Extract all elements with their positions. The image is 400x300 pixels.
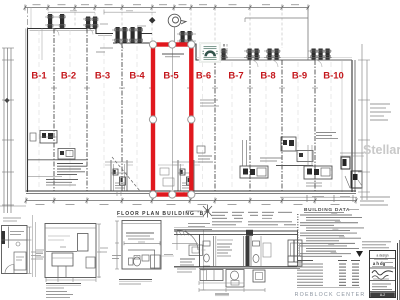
B-8 B-9 rear restroom boxes <box>281 137 296 151</box>
D3 interior walls <box>128 249 155 251</box>
entry door swing arcs <box>52 29 322 68</box>
detail callout spiral symbol <box>168 14 186 43</box>
small text above storefronts <box>137 25 146 27</box>
D5 top soffit band <box>174 227 298 229</box>
D5 walls <box>199 234 201 267</box>
svg-text:FLOOR PLAN BUILDING 'B': FLOOR PLAN BUILDING 'B' <box>117 211 207 217</box>
B-2 rear schedule text block <box>57 163 83 165</box>
sheet border edge <box>397 243 399 300</box>
revision rows above title block <box>362 241 391 243</box>
unit divider walls <box>39 29 331 192</box>
svg-text:ROEBLOCK CENTER: ROEBLOCK CENTER <box>295 292 366 298</box>
D3 dimension line <box>124 242 160 244</box>
lavatory sink <box>46 251 77 253</box>
building data note rows <box>300 214 352 216</box>
left vertical dimension lines <box>0 48 26 213</box>
secondary dimension line <box>48 11 95 13</box>
title block border <box>356 240 400 300</box>
B-6 rear marks <box>197 146 205 153</box>
D5 left stall toilet <box>203 241 210 246</box>
svg-text:B-2: B-2 <box>61 71 76 82</box>
rear right corner stair detail <box>341 157 350 169</box>
B-10 rear restroom block <box>307 145 309 166</box>
detail D1 dimension line <box>29 227 31 274</box>
D5 right stall toilet <box>253 241 260 246</box>
diagonal leader line in B-4 <box>112 157 140 191</box>
building B outline walls <box>26 29 356 194</box>
unit center mullion lines <box>38 30 40 190</box>
svg-text:B-8: B-8 <box>260 71 275 82</box>
svg-text:a h dg: a h dg <box>373 261 386 266</box>
storefront column clusters <box>45 14 332 60</box>
D5 center partition <box>246 236 250 266</box>
caption FLOOR PLAN BUILDING B <box>117 211 207 217</box>
D5 bottom dimensions <box>199 282 244 284</box>
miscellaneous plan annotation text <box>96 44 227 106</box>
right vertical dimension lines <box>358 44 391 200</box>
red selection rectangle around unit B-5 <box>149 41 195 198</box>
D5 interior note text <box>217 243 232 245</box>
title block address rows <box>372 283 391 285</box>
detail D3 enlarged toilet room plan <box>112 221 174 285</box>
detail D1 caption <box>36 249 44 251</box>
svg-text:BUILDING DATA: BUILDING DATA <box>304 207 350 213</box>
detail D2 lavatory interior elevation <box>31 224 108 298</box>
D5 below-floor cabinets <box>200 270 223 281</box>
benchmark diamond <box>149 17 156 24</box>
building data heading <box>297 207 364 288</box>
D4 text labels <box>180 258 195 260</box>
right side notes text <box>370 103 390 105</box>
left wall extension to dim line <box>27 8 29 29</box>
svg-text:B-9: B-9 <box>292 71 307 82</box>
title block signature scribble <box>372 271 393 275</box>
svg-text:B-7: B-7 <box>228 71 243 82</box>
notes text above D5 <box>212 211 228 213</box>
detail D4 door swing detail <box>172 230 212 291</box>
svg-text:B-6: B-6 <box>196 71 211 82</box>
svg-text:A-2: A-2 <box>380 293 385 297</box>
unit labels B-1 to B-10 <box>31 71 343 82</box>
B-1 B-2 rear restroom boxes <box>40 131 57 144</box>
svg-text:B-10: B-10 <box>323 71 344 82</box>
detail D2 left labels <box>31 251 43 253</box>
mirror <box>78 234 89 252</box>
rear vestibule details <box>28 131 364 197</box>
B-5 rear vestibule <box>177 160 179 191</box>
svg-text:B-1: B-1 <box>31 71 47 82</box>
D3 caption <box>119 279 152 281</box>
building data table <box>297 260 313 262</box>
D4 fixture box <box>189 245 203 256</box>
detail D2 caption <box>46 283 81 285</box>
B-7 rear restroom block <box>242 140 244 166</box>
dimension extension verticals <box>28 8 283 49</box>
top dimension line <box>24 5 310 11</box>
svg-text:B-4: B-4 <box>129 71 145 82</box>
selection handles <box>149 41 156 48</box>
B-5 rear vestibule marks <box>160 168 169 175</box>
D3 leaders and side labels <box>112 255 121 257</box>
svg-text:StellarM: StellarM <box>363 143 400 157</box>
side shelf <box>86 257 95 268</box>
D5 floor line <box>174 266 300 268</box>
bottom right dimension ticks <box>307 195 390 205</box>
D3 note text block <box>126 232 154 234</box>
title block sheet number band <box>370 292 395 297</box>
detail D2 bottom dimension <box>46 279 96 281</box>
detail D1 enlarged toilet room plan <box>2 215 45 277</box>
svg-text:B-3: B-3 <box>95 71 110 82</box>
detail D5 restroom interior elevation <box>174 212 302 295</box>
B-3 rear vestibule <box>110 160 112 191</box>
D3 left dim line <box>116 221 118 269</box>
detail D2 dimension line <box>98 224 100 278</box>
svg-text:a design: a design <box>376 253 388 257</box>
north arrow symbol <box>203 205 212 218</box>
svg-text:B-5: B-5 <box>163 71 179 82</box>
virtual tour icon <box>200 43 221 63</box>
D3 toilet fixture <box>129 258 134 265</box>
bottom dimension line of plan <box>25 197 358 204</box>
canopy line top right <box>245 8 308 61</box>
D5 right cabinet <box>288 240 302 262</box>
